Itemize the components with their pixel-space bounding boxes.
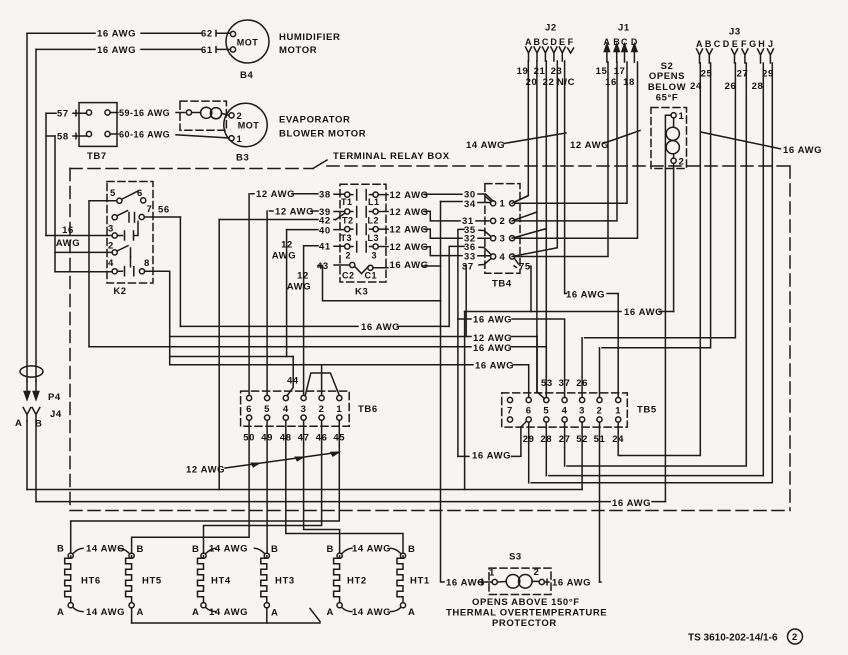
svg-text:60-16 AWG: 60-16 AWG (119, 129, 170, 139)
wire 50 from TB6-6 down to HT5-B (132, 420, 250, 553)
wire 29 from J3-J down to TB5-6 bottom (531, 63, 772, 483)
svg-text:8: 8 (144, 258, 150, 269)
svg-text:6: 6 (137, 188, 143, 199)
wire 39 (12 AWG) from TB6-5 riser to K3-T2 (270, 210, 345, 213)
svg-text:25: 25 (701, 69, 713, 80)
16 AWG bus y364.8 (K2-8 riser to TB5-6) (170, 364, 529, 366)
svg-text:C1: C1 (365, 270, 378, 280)
wire K2-8 right and down to 12AWG bus (145, 271, 170, 365)
svg-text:K3: K3 (355, 286, 368, 297)
connector J3 socket H (758, 49, 764, 63)
HT2 terminal B (337, 553, 342, 558)
svg-text:A: A (192, 607, 199, 618)
heater HT2 element (334, 556, 340, 603)
svg-text:A: A (408, 607, 415, 618)
wire 34 from riser to TB4-1 (441, 202, 491, 204)
svg-text:12 AWG: 12 AWG (390, 190, 429, 201)
HT2 B 14AWG lead (342, 548, 352, 553)
svg-text:HT1: HT1 (410, 576, 430, 587)
TB6 terminal 1 bottom (337, 415, 342, 420)
K3 contact bars row 4 (350, 242, 373, 253)
wire from S2-1 left and down to net B (665, 115, 671, 501)
TB5 terminal 1 top (616, 397, 621, 402)
svg-text:53: 53 (541, 378, 553, 389)
16 AWG label line on net B near S2 riser (609, 501, 611, 503)
TB4 terminal 1 left (491, 201, 496, 206)
HT1 B 14AWG lead (391, 548, 401, 553)
wire 47 from TB6-3 down to HT2-B (304, 420, 340, 553)
svg-text:16: 16 (62, 225, 74, 236)
svg-text:BELOW: BELOW (648, 82, 686, 93)
svg-text:3: 3 (372, 251, 378, 261)
svg-text:20: 20 (526, 77, 538, 88)
svg-text:12 AWG: 12 AWG (390, 242, 429, 253)
connector J1 pin B arrow (614, 44, 619, 62)
wire 49 from TB6-5 down to HT3-B (266, 420, 268, 553)
terminal relay box dashed border left (69, 169, 71, 511)
12 AWG bus y336.5 (K2-8 / TB4-37 / TB5-5) (170, 336, 537, 338)
wire 57 from TB7 to left vertical (46, 110, 86, 116)
svg-text:TB4: TB4 (492, 279, 512, 290)
svg-text:C: C (621, 37, 628, 47)
svg-text:29: 29 (762, 69, 774, 80)
svg-text:B: B (534, 37, 541, 47)
svg-text:18: 18 (623, 77, 635, 88)
TB4 terminal 4 right (509, 254, 514, 259)
connector J3 socket F (742, 49, 748, 63)
svg-text:62: 62 (201, 29, 213, 40)
TB6 terminal 1 top (337, 395, 342, 400)
svg-text:12 AWG: 12 AWG (275, 207, 314, 218)
connector J2 socket D (551, 47, 557, 61)
svg-text:12: 12 (297, 271, 309, 282)
wire 37 from TB4-4 diag down-left then down to 12AWG line (464, 259, 491, 337)
svg-text:12 AWG: 12 AWG (390, 225, 429, 236)
svg-text:TERMINAL RELAY BOX: TERMINAL RELAY BOX (333, 151, 450, 162)
12 AWG callout diagonal across J1 wires (603, 131, 640, 144)
svg-text:C2: C2 (342, 270, 355, 280)
wire 16 from J1-B to TB4-2 (515, 62, 617, 221)
connector J3 socket A (697, 49, 703, 63)
TB5 terminal 4 bottom (562, 417, 567, 422)
svg-text:F: F (568, 37, 574, 47)
wire 21 from J2-C down to TB4-3 (and on to TB5-5) (512, 61, 546, 395)
svg-text:44: 44 (287, 376, 299, 387)
TB6 terminal 6 bottom (247, 415, 252, 420)
connector J3 socket J (767, 49, 773, 63)
TB5 terminal 6 top (526, 397, 531, 402)
HT3 terminal B (264, 553, 269, 558)
svg-text:3: 3 (500, 234, 506, 245)
K2 contact 3 (112, 233, 117, 238)
svg-text:52: 52 (576, 434, 588, 445)
wire 16 AWG right of K3-C1 to riser x440.5 (373, 266, 441, 268)
connector J3 socket E (732, 49, 738, 63)
wire 19 from J2-A down to TB4-1 (512, 61, 528, 203)
terminal relay box callout tick (313, 160, 327, 169)
wire 61 (16 AWG) from left bus to B4 (36, 48, 230, 50)
svg-text:22: 22 (543, 77, 555, 88)
humidifier motor B4 (226, 20, 269, 63)
K2 contact bars row 4 (117, 257, 134, 276)
svg-text:2: 2 (534, 567, 540, 578)
wire 18 from J1-D to TB4-3 (515, 62, 638, 238)
svg-text:2: 2 (500, 216, 506, 227)
wire into K2-4 (55, 271, 112, 273)
HT3 terminal A (264, 603, 269, 608)
S2 terminal 2 (671, 158, 676, 163)
svg-text:J3: J3 (729, 27, 741, 38)
riser TB4-35 extended down to 16AWG y456.4 line (457, 319, 459, 456)
svg-text:C: C (542, 37, 549, 47)
HT5 B 14AWG lead (119, 548, 129, 553)
wire 12 AWG right of K3 row1 to TB4-30 (378, 194, 493, 201)
svg-text:46: 46 (316, 433, 328, 444)
S3 terminal 2 (539, 579, 544, 584)
svg-text:A: A (603, 37, 610, 47)
16 AWG bus y326.4 (K2-7/56 to TB4-36) (180, 325, 449, 327)
svg-text:26: 26 (576, 378, 588, 389)
HT4 terminal B (201, 553, 206, 558)
wire 23 from J2-E down to 16AWG label y293.5 (565, 61, 567, 294)
riser from 16AWG y311.5 down to net A (464, 312, 466, 490)
svg-text:4: 4 (108, 258, 114, 269)
TB6 terminal 5 bottom (265, 415, 270, 420)
tick at label 61 (215, 47, 217, 53)
arrowheads on 12AWG callout (252, 452, 339, 466)
wire 17 from J1-C to TB4-1 (515, 62, 627, 203)
wire 25 from J3-B down to TB5-2 top (602, 63, 711, 348)
svg-text:J4: J4 (50, 409, 62, 420)
TB7 terminal 57 (86, 110, 91, 115)
TS number circled 2 (788, 629, 803, 644)
K3 switch arm C2-C1 (355, 266, 369, 273)
TB5 terminal 4 top (562, 397, 567, 402)
wire TB7-58 into K2-2 (55, 251, 112, 253)
svg-text:65°F: 65°F (656, 93, 679, 104)
wire 24 from J3-A down to TB5-1 bottom (621, 63, 701, 456)
svg-text:N/C: N/C (557, 77, 575, 88)
svg-text:12 AWG: 12 AWG (570, 140, 609, 151)
connector J2 socket B (534, 47, 540, 61)
wire 43 from K3-C2 left, loop under K3 to C1/34 riser (318, 265, 441, 301)
44 bus y356.5 (K2-8 riser to TB6-4 drop) (170, 356, 294, 358)
connector J3 socket B (706, 49, 712, 63)
S3 terminal 1 (492, 579, 497, 584)
svg-text:HT6: HT6 (81, 576, 101, 587)
heater HT5 element (126, 556, 132, 603)
net B horizontal bus (J4-B to S2-1) (36, 501, 665, 503)
svg-text:B3: B3 (236, 153, 249, 164)
svg-text:B: B (408, 544, 415, 555)
K3 contact bars row 2 (350, 207, 373, 218)
svg-text:EVAPORATOR: EVAPORATOR (279, 115, 350, 126)
wire J4-B down to net-B bus (35, 421, 37, 502)
wire into K2-3 (16 AWG) (46, 235, 112, 237)
K3 terminal T1 (345, 192, 350, 197)
wire 41 from K3 terminal 2 left to TB6-3 riser (304, 245, 345, 248)
K2 arm on pole 7 (117, 211, 128, 216)
TB5 terminal 6 bottom (526, 417, 531, 422)
TB5 terminal 2 top (597, 397, 602, 402)
svg-text:4: 4 (500, 252, 506, 263)
svg-text:J: J (768, 39, 774, 49)
relay K3 dashed box (340, 184, 386, 282)
S3 feed riser x440.5 (from 43 loop down to S3-1) (441, 301, 445, 582)
svg-text:A: A (57, 607, 64, 618)
HT5 terminal B (129, 553, 134, 558)
riser from K3-40 down to 44 bus (286, 230, 288, 357)
wire 75 from TB4-4 right, down to S2 line (514, 258, 531, 312)
svg-text:S3: S3 (509, 552, 522, 563)
K2 contact 6 (141, 198, 146, 203)
svg-text:40: 40 (319, 225, 331, 236)
svg-text:1: 1 (500, 199, 506, 210)
svg-text:37: 37 (559, 378, 571, 389)
TB7 right terminal (59) (105, 110, 110, 115)
HT1 terminal B (400, 553, 405, 558)
TB6 terminal 5 top (265, 395, 270, 400)
wire 56 from K2-7 to right (144, 216, 180, 218)
wire K2-7/56 down to 16AWG bus (y326.4) (179, 217, 181, 326)
K2 pole 7 circle (112, 215, 117, 220)
svg-text:MOT: MOT (237, 37, 259, 47)
wire 46 from TB6-2 down to HT4-B (204, 420, 322, 553)
protector heater element coils (192, 112, 201, 114)
svg-text:A: A (137, 607, 144, 618)
terminal board TB6 dashed box (241, 391, 350, 426)
svg-text:5: 5 (543, 406, 549, 417)
switch S3 dashed box (489, 568, 551, 594)
TB6 terminal 4 bottom (283, 415, 288, 420)
svg-text:D: D (631, 37, 638, 47)
svg-text:49: 49 (261, 433, 273, 444)
svg-text:2: 2 (319, 404, 325, 415)
16 AWG bus y346.8 (K2-5 to TB5-5) (89, 346, 546, 348)
svg-text:16 AWG: 16 AWG (475, 360, 514, 371)
HT1 A 14AWG lead (391, 608, 401, 612)
svg-text:T1: T1 (341, 197, 353, 207)
svg-text:2: 2 (792, 632, 798, 643)
svg-text:B: B (192, 544, 199, 555)
svg-text:TB6: TB6 (358, 404, 378, 415)
svg-text:TB5: TB5 (637, 405, 657, 416)
svg-text:J1: J1 (618, 23, 630, 34)
terminal 62 on B4 (230, 31, 235, 36)
riser TB5-3 top to wire 26 (581, 338, 583, 398)
K2 contact 5 (117, 198, 122, 203)
svg-text:T3: T3 (341, 233, 353, 243)
wire 52 from TB5-3 bottom to net A (581, 422, 583, 489)
terminal relay box dashed border bottom (70, 510, 790, 512)
wire 20 from J2-B down to TB4-2 (512, 61, 537, 392)
svg-text:B: B (613, 37, 620, 47)
B3 inline thermal protector dashed box (180, 101, 226, 130)
K2 contact 56 circle (139, 214, 144, 219)
terminal relay box dashed border right (789, 166, 791, 511)
svg-text:29: 29 (523, 434, 535, 445)
K3 terminal T3 (345, 227, 350, 232)
svg-text:D: D (550, 37, 557, 47)
svg-text:1: 1 (679, 111, 685, 122)
svg-text:G: G (749, 39, 757, 49)
tick at label 62 (215, 31, 217, 37)
svg-text:J2: J2 (545, 23, 557, 34)
svg-text:48: 48 (280, 433, 292, 444)
svg-text:16 AWG: 16 AWG (566, 289, 605, 300)
svg-text:B: B (57, 544, 64, 555)
K3 terminal 3 (row 4 right) (373, 244, 378, 249)
svg-text:1: 1 (237, 134, 243, 145)
svg-text:A: A (15, 418, 22, 429)
svg-text:L1: L1 (368, 197, 380, 207)
svg-text:28: 28 (540, 434, 552, 445)
left bus vertical from wire 61 down to P4 (net B) (35, 49, 37, 381)
K3 contact bars row 3 (350, 224, 373, 235)
TB5 terminal 3 bottom (580, 417, 585, 422)
HT6 B 14AWG lead (73, 548, 83, 553)
svg-text:2: 2 (346, 251, 352, 261)
svg-text:34: 34 (464, 199, 476, 210)
TB6 terminal 4 top (283, 395, 288, 400)
J4 socket A fork (23, 408, 31, 422)
TB7 right terminal (60) (105, 131, 110, 136)
B3 terminal 1 (229, 136, 234, 141)
riser from TB6-3 top to K3-41 (303, 246, 305, 396)
svg-text:1: 1 (615, 406, 621, 417)
cable oval on P4 harness (20, 366, 43, 377)
svg-text:HT3: HT3 (275, 576, 295, 587)
svg-text:15: 15 (596, 66, 608, 77)
svg-text:3: 3 (579, 406, 585, 417)
TB5 terminal 3 top (580, 397, 585, 402)
svg-text:57: 57 (57, 109, 69, 120)
svg-text:50: 50 (243, 433, 255, 444)
wire 38 (12 AWG) from TB6-6 riser to K3-T1 (251, 193, 345, 195)
svg-text:38: 38 (319, 189, 331, 200)
svg-text:16 AWG: 16 AWG (783, 145, 822, 156)
wire 12 AWG right of K3 row2 to TB4-31 (jog) (378, 211, 489, 221)
svg-text:C: C (714, 39, 721, 49)
TB4 terminal 4 left (491, 254, 496, 259)
TB6 terminal 2 top (319, 395, 324, 400)
svg-text:12 AWG: 12 AWG (186, 465, 225, 476)
TB6 terminal 2 bottom (319, 415, 324, 420)
svg-text:14 AWG: 14 AWG (86, 607, 125, 618)
svg-text:B: B (271, 544, 278, 555)
svg-text:59-16 AWG: 59-16 AWG (119, 108, 170, 118)
svg-text:16 AWG: 16 AWG (361, 322, 400, 333)
K2 contact arm 5-6 (122, 191, 139, 200)
K2 contact 2 (112, 250, 117, 255)
wire 19 diag into TB4-1 right (514, 196, 528, 202)
16 AWG line y319 (TB4-35 to TB5-4) (458, 319, 565, 397)
svg-text:AWG: AWG (56, 238, 81, 249)
TB6 terminal 3 top (301, 395, 306, 400)
evaporator blower motor B3 (224, 103, 267, 146)
svg-text:4: 4 (283, 404, 289, 415)
svg-text:4: 4 (562, 406, 568, 417)
riser from TB6-2 top to 16AWG y364.8 line (321, 365, 323, 396)
riser x440.5 connecting TB4-34, C1 wire and 43 loop (440, 202, 442, 301)
svg-text:28: 28 (752, 81, 764, 92)
vertical wire TB7-57 to K2-3 (45, 113, 47, 235)
wire 33 straight left of TB4-4 (478, 255, 491, 257)
wire 27 from J3-F down to TB5-4 bottom (567, 63, 746, 466)
svg-text:TB7: TB7 (87, 151, 107, 162)
svg-text:27: 27 (559, 434, 571, 445)
wire 48 from TB6-4 down to HT1-B (286, 420, 403, 553)
svg-text:5: 5 (110, 188, 116, 199)
svg-text:E: E (559, 37, 566, 47)
svg-text:21: 21 (534, 66, 546, 77)
svg-text:51: 51 (594, 434, 606, 445)
svg-text:17: 17 (614, 66, 626, 77)
wire 22 from J2-D down to TB4-4 (512, 61, 557, 257)
terminal board TB7 (79, 103, 117, 147)
svg-text:T2: T2 (342, 216, 354, 226)
svg-text:HT2: HT2 (347, 576, 367, 587)
switch S2 dashed box (651, 108, 687, 169)
svg-text:12 AWG: 12 AWG (390, 207, 429, 218)
connector J1 pin D arrow (632, 44, 637, 62)
svg-text:12 AWG: 12 AWG (256, 189, 295, 200)
svg-text:16 AWG: 16 AWG (624, 307, 663, 318)
svg-text:AWG: AWG (272, 251, 297, 262)
K2 contact bar row 2 (130, 248, 132, 257)
svg-text:58: 58 (57, 131, 69, 142)
svg-text:14 AWG: 14 AWG (209, 544, 248, 555)
drop from 12AWG bus to TB5-5 (537, 337, 544, 399)
wire 44 drop to TB6-4 (287, 357, 293, 396)
svg-text:3: 3 (108, 224, 114, 235)
svg-text:PROTECTOR: PROTECTOR (492, 618, 557, 629)
svg-text:16 AWG: 16 AWG (97, 29, 136, 40)
svg-text:TS 3610-202-14/1-6: TS 3610-202-14/1-6 (688, 633, 778, 644)
jumper hump TB6-3 to TB6-1 (305, 373, 339, 396)
12 AWG callout diagonal across TB6 heater wires (225, 453, 337, 469)
svg-text:D: D (723, 39, 730, 49)
heater A bus HT5 to HT3 (132, 609, 320, 624)
HT6 terminal A (68, 603, 73, 608)
svg-text:HT4: HT4 (211, 576, 231, 587)
TB5 terminal 5 bottom (544, 417, 549, 422)
connector J2 socket A (526, 47, 532, 61)
heater HT3 element (261, 556, 267, 603)
wire 15 from J1-A to TB4-4 (515, 62, 608, 257)
wire 42 vertical down to net A (218, 220, 220, 490)
terminal board TB4 dashed box (485, 184, 520, 274)
wire 16 AWG left into S3-1 (479, 579, 492, 585)
svg-text:F: F (741, 39, 747, 49)
K2 arm on contact 2 (117, 246, 128, 251)
wire 62 (16 AWG) from left bus to B4 (27, 32, 230, 34)
wire 30 diag into TB4-1 (486, 197, 491, 202)
14 AWG callout diagonal across J2 wires (504, 133, 566, 144)
svg-text:43: 43 (317, 261, 329, 272)
svg-text:2: 2 (108, 241, 114, 252)
svg-text:16 AWG: 16 AWG (446, 578, 485, 589)
svg-text:K2: K2 (113, 286, 126, 297)
svg-text:23: 23 (551, 66, 563, 77)
svg-text:16 AWG: 16 AWG (473, 315, 512, 326)
svg-text:MOT: MOT (238, 121, 260, 131)
svg-text:61: 61 (201, 45, 213, 56)
S2 thermal element (673, 118, 675, 158)
K2 contact 8 (139, 269, 144, 274)
HT2 terminal A (337, 603, 342, 608)
B3 terminal 2 (229, 113, 234, 118)
